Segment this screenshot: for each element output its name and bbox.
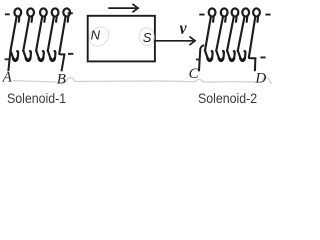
solenoid-2 lead to C [199, 45, 204, 71]
solenoid-1 coil turns [11, 8, 71, 53]
solenoid-1 bottom loop dark bottoms [13, 59, 54, 61]
svg-text:N: N [91, 28, 101, 43]
svg-text:D: D [254, 71, 266, 87]
solenoid-2 bowl bottoms fuse [211, 15, 258, 18]
solenoid-1 lead to B (bracket) [59, 54, 64, 72]
velocity arrow [156, 37, 196, 46]
svg-text:B: B [57, 72, 66, 88]
solenoid-1 lead to A [8, 51, 10, 72]
solenoid-1 dash bottom-right [68, 53, 73, 55]
solenoid-1 bowl bottoms fuse [17, 15, 69, 18]
solenoid-1 dash top-left [5, 13, 10, 15]
turn 5 [59, 8, 70, 53]
solenoid-2 bottom loop dark bottoms [208, 59, 245, 61]
solenoid-2 coil turns [205, 8, 260, 57]
svg-text:C: C [189, 66, 200, 82]
svg-text:S: S [143, 30, 152, 45]
solenoid-2 lead to D (bracket) [249, 57, 256, 71]
solenoid-2 bottom loops [205, 50, 245, 60]
turn 1 [205, 8, 215, 50]
turn 2 [216, 8, 227, 50]
turn 2 [23, 8, 34, 50]
turn 5 [249, 8, 260, 57]
turn 4 [48, 8, 59, 50]
turn 4 [238, 8, 249, 50]
solenoid-2 dash bottom-right [260, 57, 265, 59]
svg-text:v: v [180, 18, 187, 38]
solenoid-2 lead C serif [196, 59, 200, 61]
turn 3 [227, 8, 238, 50]
faint oval around N [86, 23, 113, 50]
solenoid-1 dash top-right [68, 12, 73, 14]
solenoid-2 dash top-left [199, 14, 204, 16]
caption Solenoid-1 [7, 91, 66, 107]
turn 1 [11, 8, 22, 50]
caption Solenoid-2 [198, 91, 257, 107]
magnet box [88, 16, 155, 62]
solenoid-2 dash top-right [265, 14, 270, 16]
turn 3 [36, 8, 47, 50]
faint oval around S [138, 27, 155, 47]
svg-text:A: A [2, 70, 13, 86]
solenoid-1 dash bottom-left [5, 58, 11, 60]
arrow above magnet [108, 4, 138, 12]
faint connecting wire A-B-C-D baseline [13, 77, 272, 83]
solenoid-1 bottom loops [10, 50, 55, 60]
